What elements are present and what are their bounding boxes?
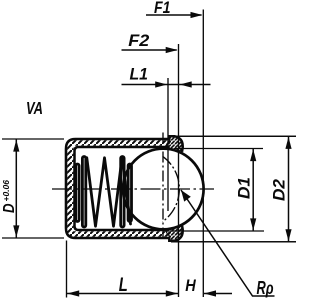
arrow left D down — [13, 225, 19, 237]
arrow F2 — [166, 47, 178, 53]
wire left D top extension line — [2, 138, 64, 140]
wire F1 extension line — [202, 10, 204, 298]
wire H outside dimension line — [204, 293, 232, 295]
arrow H left-pointing — [204, 290, 216, 296]
wire D2 top extension line — [171, 135, 296, 137]
arrow D1 up — [250, 149, 256, 161]
arrow F1 — [191, 12, 203, 18]
svg-text:H: H — [185, 276, 196, 295]
label D1 — [235, 177, 254, 199]
svg-text:+0.06: +0.06 — [1, 180, 11, 202]
svg-text:D2: D2 — [270, 178, 289, 201]
svg-text:L: L — [119, 275, 128, 296]
wire F1 dimension line — [146, 14, 202, 16]
wire D1 dimension line — [252, 149, 254, 232]
arrow R leader — [181, 190, 191, 202]
svg-text:VA: VA — [26, 98, 43, 118]
arrow L left — [67, 290, 79, 296]
wire F2 extension line — [178, 44, 180, 297]
wire F2 dimension line — [122, 49, 177, 51]
hatch top lip — [166, 137, 182, 153]
wire D2 bottom extension line overlay — [171, 241, 296, 243]
wire D2 bottom extension line — [171, 241, 296, 243]
housing outer left edge — [65, 149, 68, 229]
housing inner bore contour — [75, 147, 169, 230]
svg-text:F2: F2 — [128, 32, 149, 50]
centerline vertical — [162, 133, 164, 242]
arrow D2 down — [285, 229, 291, 241]
spring coil bar 1 — [76, 164, 79, 222]
housing outer contour bottom — [66, 225, 183, 241]
label D2 — [270, 178, 289, 201]
svg-text:Rρ: Rρ — [257, 278, 274, 298]
hatch left wall band — [67, 141, 73, 236]
hatch top wall band — [69, 140, 171, 146]
spring coil bar 3 — [121, 157, 124, 228]
wire left D bottom extension line — [2, 237, 64, 239]
housing outer contour top — [66, 136, 183, 152]
svg-text:L1: L1 — [130, 65, 149, 83]
label D with tolerance — [1, 180, 18, 213]
wire L dimension line — [67, 293, 178, 295]
phantom arc pressed ball position — [163, 156, 180, 221]
arrow left D up — [13, 140, 19, 152]
wire L left extension line — [66, 241, 68, 298]
hatch bottom wall band — [69, 231, 171, 237]
hatch bottom lip — [166, 224, 182, 240]
arrow L1 left-pointing — [180, 81, 192, 87]
spring coil bar 2 — [82, 157, 85, 228]
centerline horizontal — [52, 188, 214, 190]
wire D2 dimension line — [288, 136, 290, 242]
svg-text:D: D — [1, 203, 18, 213]
arrow L1 right-pointing — [155, 81, 167, 87]
spring zigzag — [87, 158, 131, 226]
arrow D1 down — [250, 218, 256, 230]
svg-text:D1: D1 — [235, 177, 254, 199]
arrow D2 up — [285, 137, 291, 149]
wire R leader line — [181, 190, 275, 296]
wire L1 extension line — [167, 78, 169, 211]
wire D1 top extension line — [174, 148, 263, 150]
arrow L right — [166, 290, 178, 296]
ball — [123, 149, 204, 230]
wire D1 bottom extension line — [170, 230, 264, 232]
wire D2 top extension line overlay — [171, 135, 296, 137]
wire left D dimension line — [15, 139, 17, 238]
spring coil bar 4 — [128, 164, 131, 222]
wire L1 dimension line — [122, 84, 211, 86]
